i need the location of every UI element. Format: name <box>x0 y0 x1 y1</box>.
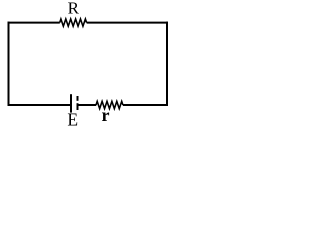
battery cell E: long plate <box>70 94 72 112</box>
label r <box>102 105 110 125</box>
wire: bottom, battery to resistor r <box>79 104 97 106</box>
battery cell E: short dashed plate, lower dash <box>77 103 79 110</box>
svg-text:r: r <box>102 105 110 125</box>
wire: left side vertical <box>8 22 10 106</box>
battery cell E: short dashed plate, upper dash <box>77 96 79 101</box>
label R <box>68 0 80 17</box>
label E <box>67 110 78 130</box>
resistor R <box>60 19 87 26</box>
wire: bottom, resistor r to right corner <box>123 104 168 106</box>
svg-text:E: E <box>67 110 78 130</box>
wire: top, resistor R to right corner <box>87 22 168 24</box>
wire: bottom, left corner to battery <box>8 104 71 106</box>
wire: top, left corner to resistor R <box>8 22 60 24</box>
svg-text:R: R <box>68 0 80 17</box>
resistor r <box>96 101 123 108</box>
wire: right side vertical <box>166 22 168 106</box>
